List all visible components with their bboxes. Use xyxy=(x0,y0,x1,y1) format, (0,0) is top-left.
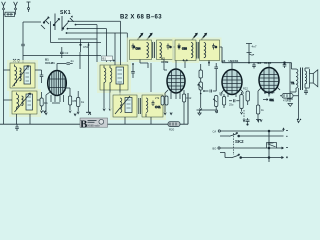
IFT2 trim arrows xyxy=(138,33,153,40)
wire bus top xyxy=(23,21,127,63)
wire IFT3 sec bottom xyxy=(208,61,210,67)
wire tube B4 pins xyxy=(258,63,280,105)
label box xyxy=(102,56,113,61)
resistor R18 xyxy=(240,92,243,114)
plus marks xyxy=(110,60,115,62)
wire left vert xyxy=(289,63,291,99)
capacitor C2 xyxy=(60,47,69,58)
arrow tap xyxy=(263,98,274,102)
wire xyxy=(15,10,17,12)
capacitor C7 xyxy=(131,63,135,78)
switch SK1 contacts xyxy=(41,14,74,32)
mains wire 4 xyxy=(220,153,284,159)
resistor R1 xyxy=(40,92,48,110)
cap C50 xyxy=(304,88,308,95)
svg-text:BO: BO xyxy=(213,146,217,150)
svg-text:UCH81: UCH81 xyxy=(45,61,55,65)
chassis gnd xyxy=(164,113,172,115)
volume pot R16 xyxy=(213,96,218,113)
IFT3 primary parts xyxy=(178,43,193,58)
svg-text:B4: B4 xyxy=(258,61,262,65)
wire switch feeds xyxy=(97,21,127,65)
svg-text:1k: 1k xyxy=(81,100,85,104)
grid chain resistors xyxy=(198,64,203,110)
type plate box xyxy=(80,118,108,130)
IFT3 core xyxy=(197,42,199,59)
wire xyxy=(3,10,5,124)
plus marks B2 xyxy=(183,59,188,61)
svg-text:R22: R22 xyxy=(243,87,248,91)
contact dots xyxy=(66,20,77,33)
tube B2 label xyxy=(161,57,169,65)
chassis tap xyxy=(287,99,293,106)
IF1 core xyxy=(139,98,141,114)
resistor R22 xyxy=(243,87,249,106)
IFT2 primary parts xyxy=(132,43,149,58)
svg-text:R20: R20 xyxy=(169,128,175,132)
svg-text:R5: R5 xyxy=(73,99,77,103)
svg-text:1M: 1M xyxy=(219,92,223,96)
cap C52 xyxy=(246,118,250,125)
cathode cap C47 xyxy=(264,91,274,94)
wire L2 to bus xyxy=(17,114,31,124)
tube B1 UCH81 xyxy=(48,71,67,96)
wire link xyxy=(173,46,176,48)
svg-text:27k: 27k xyxy=(155,96,160,100)
chassis gnd xyxy=(41,111,46,113)
svg-text:C38: C38 xyxy=(182,47,187,51)
resistor R21 xyxy=(256,105,264,122)
node C1 junction xyxy=(79,39,88,52)
dots xyxy=(297,119,301,120)
tube B4 label xyxy=(258,61,272,65)
switch SK1 label xyxy=(60,10,71,16)
switch SK2 label xyxy=(235,139,244,144)
svg-text:R12: R12 xyxy=(187,96,192,100)
resistor R11 xyxy=(155,96,168,105)
svg-text:4n7: 4n7 xyxy=(252,45,257,49)
resistor R5 xyxy=(69,96,77,113)
svg-text:2X68B radio: 2X68B radio xyxy=(87,124,101,127)
IFT3 primary highlight xyxy=(172,38,199,64)
title xyxy=(120,15,162,21)
tube B1 label xyxy=(45,58,55,66)
svg-text:C41: C41 xyxy=(155,105,161,109)
coil unit L2 highlight xyxy=(9,89,41,117)
mains wire 3 xyxy=(220,147,266,149)
capacitor C6 in AE line xyxy=(21,44,25,46)
resistor R20 xyxy=(168,122,180,132)
battery tap xyxy=(15,124,19,131)
svg-text:UL84: UL84 xyxy=(264,61,272,65)
capacitor C44 xyxy=(246,44,257,64)
svg-text:UF89: UF89 xyxy=(161,60,169,64)
IFT2 core xyxy=(153,42,155,58)
IFT2 primary highlight xyxy=(127,38,155,63)
IFT3 secondary parts xyxy=(204,43,217,58)
wire IF drops xyxy=(140,60,209,71)
capacitor C40 xyxy=(203,90,216,93)
svg-text:UBC81: UBC81 xyxy=(229,59,239,63)
svg-text:B1: B1 xyxy=(103,57,107,61)
switch SK2 dashed link xyxy=(234,110,246,155)
resistor R17 xyxy=(219,92,226,109)
wire row5 xyxy=(58,38,97,40)
svg-text:501: 501 xyxy=(270,98,275,102)
oscillator coil windings xyxy=(104,66,124,89)
svg-text:B2 X 68 B–63: B2 X 68 B–63 xyxy=(120,15,162,21)
fuse/link box xyxy=(4,12,16,16)
antenna A1 xyxy=(2,2,6,10)
capacitor C39 xyxy=(214,63,218,91)
wire tube B1 pins xyxy=(46,52,80,112)
svg-text:CA: CA xyxy=(213,129,217,133)
ferrite antenna symbol xyxy=(13,59,20,63)
vert join xyxy=(268,130,270,162)
IFT3 trim arrows xyxy=(192,33,207,40)
coil L1 windings xyxy=(13,65,31,87)
mains wire 2 with switch xyxy=(220,133,284,137)
capacitor C3 xyxy=(64,59,74,64)
IF1 primary highlight xyxy=(110,93,140,121)
gnd sym xyxy=(256,120,261,123)
IFT2 secondary highlight xyxy=(154,38,176,63)
antenna A2 xyxy=(14,2,18,10)
chassis gnd above plate xyxy=(74,112,91,115)
svg-text:C2: C2 xyxy=(65,51,69,55)
svg-text:SK2: SK2 xyxy=(235,139,244,144)
capacitor C48 xyxy=(283,62,287,68)
capacitor C45 xyxy=(252,63,256,69)
wire tube B2 pins xyxy=(165,61,184,113)
wire osc bottoms xyxy=(104,84,120,108)
svg-text:C34: C34 xyxy=(136,47,141,51)
terminal marks right xyxy=(286,131,288,159)
voltage selector xyxy=(267,142,284,149)
wire tube B3 pins xyxy=(221,63,243,97)
mains terminal P1 xyxy=(213,129,221,133)
bottom bus wire xyxy=(0,93,188,124)
tube B3 UBC81 xyxy=(222,70,242,95)
IF1 secondary windings xyxy=(146,98,161,112)
IF1 secondary highlight xyxy=(140,93,166,121)
loudspeaker xyxy=(310,69,318,88)
coil L2 windings xyxy=(15,93,33,113)
tube B4 UL84 xyxy=(259,68,279,93)
oscillator coil S2 highlight xyxy=(97,62,131,93)
resistor R23 xyxy=(280,94,299,103)
resistor R6 xyxy=(77,91,85,112)
capacitor C4 xyxy=(40,70,44,83)
tube B3 label xyxy=(222,59,239,63)
wire B+ line xyxy=(220,47,292,63)
coil unit L1 highlight xyxy=(7,60,38,91)
svg-text:SK1: SK1 xyxy=(60,10,71,16)
gnd T mid xyxy=(197,110,218,115)
IFT3 secondary highlight xyxy=(197,38,222,62)
mains terminal P3 xyxy=(213,146,221,150)
capacitor C42 xyxy=(229,99,239,106)
wire mid vertical xyxy=(150,63,152,92)
resistor R12 xyxy=(183,94,192,124)
wire xyxy=(4,70,42,100)
svg-text:2n: 2n xyxy=(71,59,75,63)
wire xyxy=(125,114,151,125)
chassis gnd xyxy=(103,109,121,111)
wire xyxy=(297,88,299,123)
tube B2 UF89 xyxy=(167,69,185,93)
svg-text:25u: 25u xyxy=(229,103,234,107)
svg-text:B3: B3 xyxy=(222,59,226,63)
earth terminal E xyxy=(27,2,31,12)
mains wire 1 xyxy=(220,128,284,131)
svg-text:T1: T1 xyxy=(291,81,295,85)
wire AGC line xyxy=(23,21,101,55)
output transformer T1 xyxy=(290,63,310,92)
chassis gnd xyxy=(45,103,60,115)
IF1 primary windings xyxy=(115,96,132,114)
node xyxy=(88,43,90,113)
chassis gnd xyxy=(77,112,79,114)
IFT2 secondary parts xyxy=(160,43,172,58)
